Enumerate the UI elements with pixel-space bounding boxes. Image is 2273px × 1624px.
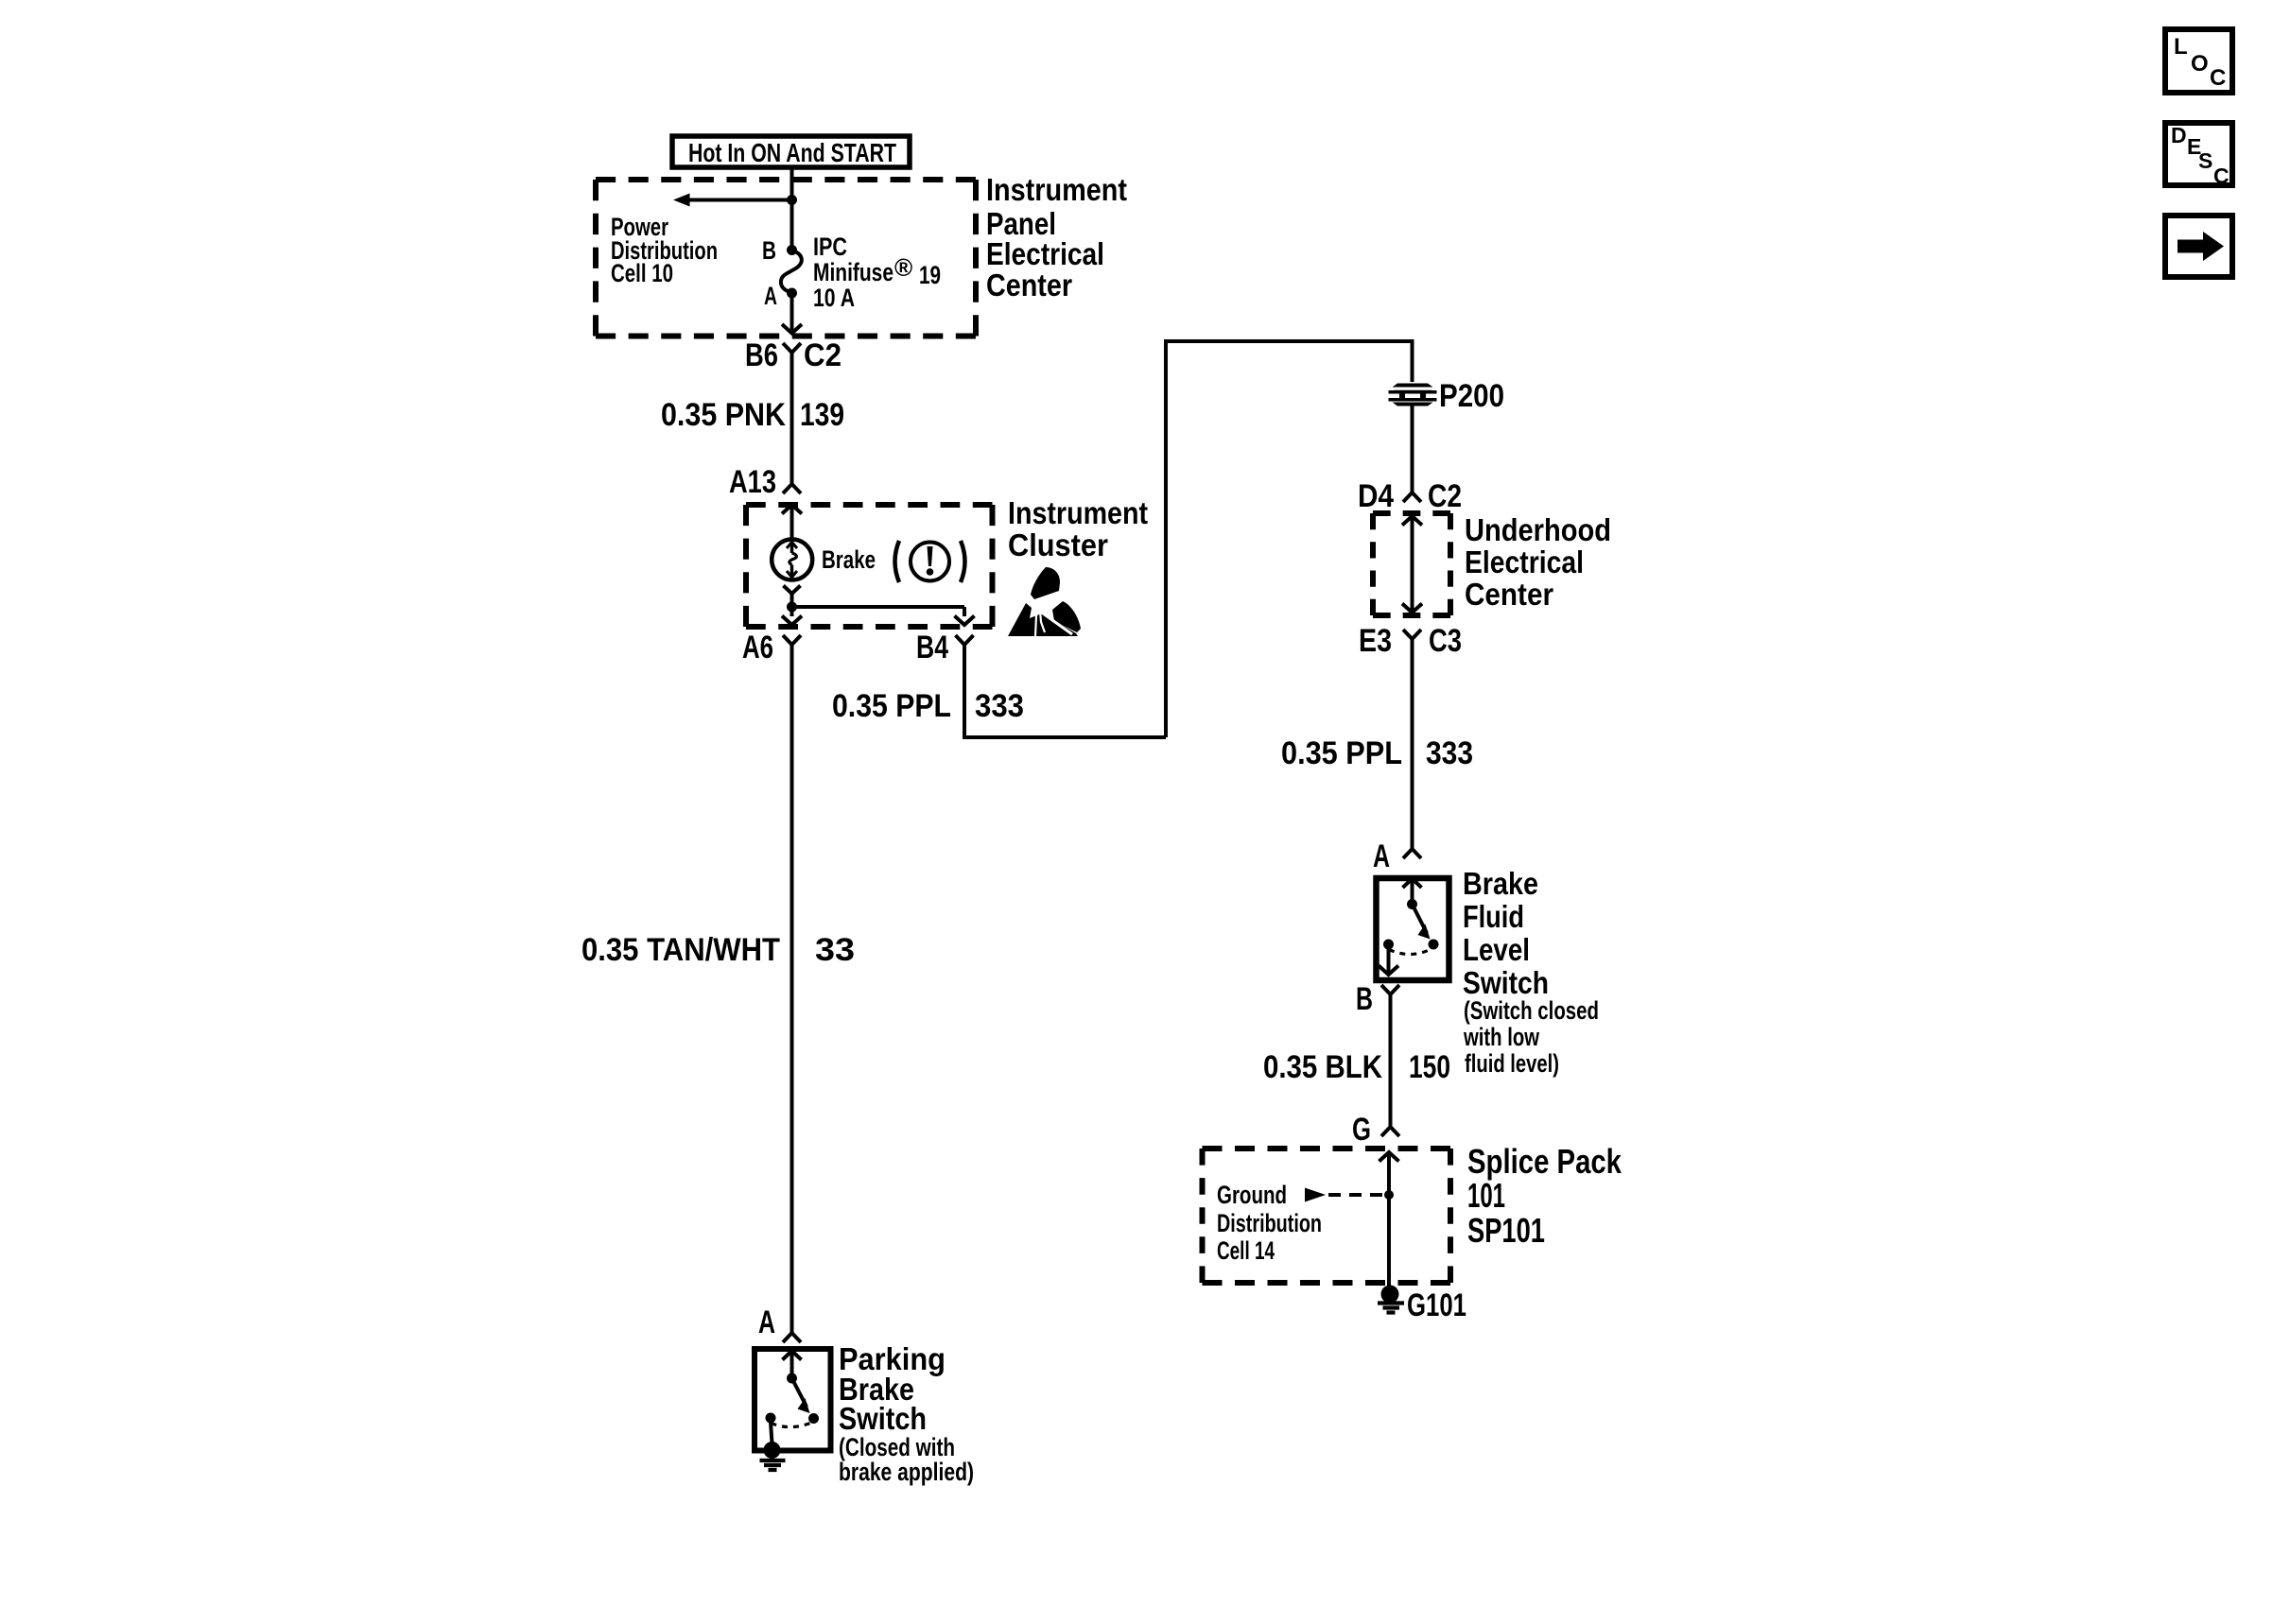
- svg-text:IPC: IPC: [813, 233, 847, 261]
- female connector B4: [956, 635, 974, 645]
- male terminal arrow at B6: [782, 324, 802, 334]
- svg-text:19: 19: [919, 261, 941, 289]
- svg-text:Brake: Brake: [822, 545, 876, 574]
- label Splice Pack 101 SP101: [1467, 1142, 1622, 1250]
- splice pack internal wire: [1387, 1152, 1391, 1292]
- female connector A (brake fluid level switch): [1403, 849, 1421, 858]
- Underhood Electrical Center box: [1373, 513, 1450, 615]
- fuse pin B dot: [787, 245, 797, 255]
- junction in IPEC: [787, 195, 797, 205]
- female connector A13: [783, 484, 801, 493]
- male terminal arrow at G: [1379, 1152, 1399, 1162]
- svg-text:L: L: [2174, 34, 2188, 60]
- svg-text:(Switch closed: (Switch closed: [1464, 996, 1599, 1025]
- svg-text:D4: D4: [1358, 478, 1394, 514]
- svg-text:Electrical: Electrical: [986, 236, 1104, 271]
- svg-text:P200: P200: [1439, 378, 1504, 414]
- svg-text:Cell 14: Cell 14: [1217, 1236, 1275, 1265]
- female connector E3/C3: [1403, 630, 1421, 639]
- label Instrument Cluster: [1008, 495, 1148, 562]
- svg-text:0.35 BLK: 0.35 BLK: [1263, 1049, 1382, 1085]
- wire A13 to brake gauge: [790, 505, 794, 540]
- female connector A6: [783, 635, 801, 645]
- svg-text:Center: Center: [986, 268, 1072, 302]
- svg-text:Cluster: Cluster: [1008, 527, 1108, 562]
- svg-text:33: 33: [815, 932, 855, 968]
- wire fuse A to connector B6: [790, 293, 794, 333]
- fluid switch pivot dot: [1407, 899, 1417, 909]
- svg-text:B: B: [762, 236, 776, 265]
- svg-text:Hot In ON And START: Hot In ON And START: [688, 138, 896, 167]
- fluid switch: terminal A arrow: [1403, 879, 1422, 905]
- svg-text:Splice Pack: Splice Pack: [1467, 1142, 1622, 1181]
- svg-text:S: S: [2198, 148, 2212, 173]
- label Parking Brake Switch: [839, 1341, 946, 1436]
- wire 0.35 PNK 139: [790, 353, 794, 484]
- wire gauge to junction: [790, 594, 794, 607]
- svg-text:C3: C3: [1429, 623, 1462, 659]
- wire through underhood center: [1411, 516, 1414, 613]
- svg-text:333: 333: [975, 688, 1024, 724]
- ESD static sensitive device symbol: [1008, 567, 1081, 636]
- parking brake contact dot (fixed): [766, 1413, 776, 1424]
- Instrument Panel Electrical Center box: [596, 180, 976, 337]
- svg-text:G101: G101: [1407, 1287, 1466, 1323]
- fluid switch terminal B arrow: [1379, 966, 1398, 976]
- svg-text:A: A: [758, 1304, 775, 1340]
- svg-text:with low: with low: [1463, 1023, 1540, 1051]
- LOC nav box: [2165, 29, 2232, 93]
- svg-text:A13: A13: [729, 464, 776, 500]
- svg-text:0.35 PPL: 0.35 PPL: [1281, 735, 1402, 771]
- DESC nav box: [2165, 123, 2232, 188]
- power feed box "Hot In ON And START": [672, 136, 910, 167]
- svg-text:Switch: Switch: [839, 1401, 927, 1436]
- ground distribution arrow: [1305, 1188, 1326, 1202]
- brake indicator gauge (instrument cluster): [772, 540, 812, 580]
- wire B4 branch down: [963, 607, 966, 616]
- svg-text:C: C: [2210, 65, 2226, 91]
- parking brake dashed closed-position arc: [772, 1423, 812, 1427]
- svg-text:brake applied): brake applied): [839, 1458, 974, 1486]
- label IPC Minifuse (R) 19 / 10 A: [813, 233, 941, 312]
- male terminal arrow at D4: [1402, 516, 1422, 526]
- svg-text:®: ®: [894, 253, 912, 282]
- svg-text:Minifuse: Minifuse: [813, 258, 894, 286]
- ground symbol (parking brake): [760, 1460, 786, 1470]
- fluid switch contact dot (moving): [1429, 940, 1439, 950]
- svg-text:101: 101: [1467, 1176, 1505, 1215]
- svg-text:SP101: SP101: [1467, 1211, 1545, 1250]
- wire 0.35 BLK 150: [1389, 994, 1393, 1127]
- female connector D4/C2: [1403, 492, 1421, 502]
- svg-text:Level: Level: [1463, 932, 1530, 967]
- svg-text:C2: C2: [804, 337, 842, 373]
- forward arrow nav box: [2165, 216, 2232, 277]
- fluid switch lead to terminal B: [1387, 948, 1391, 974]
- wire elbow to P200: [1166, 341, 1413, 737]
- svg-text:D: D: [2171, 123, 2187, 147]
- fluid switch dashed closed-position arc: [1389, 949, 1432, 955]
- ground terminal dot G101: [1381, 1286, 1399, 1304]
- svg-text:C: C: [2213, 164, 2230, 188]
- svg-text:G: G: [1352, 1112, 1371, 1148]
- Splice Pack SP101 box: [1203, 1149, 1451, 1283]
- svg-text:Ground: Ground: [1217, 1181, 1287, 1209]
- svg-text:C2: C2: [1428, 478, 1462, 514]
- parking brake ground dot: [764, 1442, 781, 1459]
- wire to power distribution (left): [687, 199, 792, 202]
- fuse IPC Minifuse 19 10A (element): [781, 251, 802, 293]
- female connector B6/C2: [783, 343, 801, 353]
- svg-text:B4: B4: [916, 630, 948, 665]
- brake warning indicator symbol ((!)): [895, 541, 965, 582]
- wire junction to fuse pin B: [790, 200, 794, 251]
- female connector B (fluid switch): [1381, 985, 1399, 994]
- parking brake switch box: [755, 1349, 831, 1451]
- ground symbol G101: [1378, 1304, 1404, 1313]
- fuse pin A dot: [787, 288, 797, 299]
- svg-text:Electrical: Electrical: [1465, 544, 1584, 579]
- label Brake Fluid Level Switch: [1463, 866, 1549, 1000]
- svg-text:10 A: 10 A: [813, 284, 855, 312]
- wire 0.35 TAN/WHT 33: [790, 645, 794, 1333]
- wire junction to B4 branch: [792, 605, 965, 609]
- label Power Distribution Cell 10: [611, 213, 718, 287]
- parking brake lead to ground: [771, 1422, 772, 1443]
- svg-text:139: 139: [800, 397, 844, 433]
- wire feed into IPEC: [790, 167, 794, 200]
- svg-text:O: O: [2191, 51, 2209, 77]
- svg-text:Distribution: Distribution: [1217, 1209, 1322, 1237]
- svg-text:0.35 TAN/WHT: 0.35 TAN/WHT: [581, 932, 780, 968]
- fluid switch blade (open position): [1413, 905, 1431, 940]
- female connector A (parking brake switch): [783, 1333, 801, 1342]
- svg-text:Center: Center: [1465, 577, 1553, 612]
- Instrument Cluster box: [746, 505, 993, 627]
- svg-text:E3: E3: [1359, 623, 1392, 659]
- arrowhead to Power Distribution: [673, 194, 690, 207]
- label (Closed with brake applied): [839, 1433, 974, 1486]
- svg-text:A: A: [1373, 838, 1390, 874]
- svg-text:0.35 PPL: 0.35 PPL: [832, 688, 951, 724]
- dashed wire to ground distribution: [1328, 1193, 1384, 1197]
- wire 0.35 PPL 333 (right): [1411, 639, 1414, 849]
- label Ground Distribution Cell 14: [1217, 1181, 1322, 1265]
- svg-text:Cell 10: Cell 10: [611, 259, 673, 287]
- svg-text:Underhood: Underhood: [1465, 512, 1611, 547]
- connector P200 (pass-through): [1387, 382, 1438, 407]
- svg-text:Instrument: Instrument: [1008, 495, 1148, 530]
- wire B4 to elbow: [964, 645, 1166, 737]
- junction in cluster: [787, 602, 797, 613]
- svg-text:Switch: Switch: [1463, 965, 1549, 1000]
- svg-text:B6: B6: [745, 337, 778, 373]
- parking brake pivot dot: [787, 1373, 797, 1384]
- svg-text:333: 333: [1426, 735, 1473, 771]
- label Instrument Panel Electrical Center: [986, 172, 1127, 302]
- label Underhood Electrical Center: [1465, 512, 1611, 612]
- wire junction down to A6: [790, 607, 794, 616]
- parking brake switch: terminal A arrow: [783, 1351, 802, 1378]
- svg-text:A6: A6: [742, 630, 773, 665]
- parking brake blade (open position): [792, 1378, 810, 1413]
- splice junction dot: [1384, 1190, 1394, 1200]
- svg-text:fluid level): fluid level): [1465, 1049, 1559, 1078]
- brake fluid level switch box: [1377, 878, 1449, 980]
- female connector G (splice pack): [1381, 1127, 1399, 1136]
- svg-text:B: B: [1356, 981, 1373, 1017]
- male terminal arrow at A6: [782, 616, 802, 626]
- label (Switch closed with low fluid level): [1463, 996, 1599, 1078]
- svg-text:Brake: Brake: [1463, 866, 1538, 901]
- parking brake contact dot (moving): [808, 1413, 819, 1424]
- male terminal arrow at E3: [1402, 604, 1422, 613]
- svg-text:Instrument: Instrument: [986, 172, 1127, 207]
- male terminal arrow at A13: [782, 505, 802, 514]
- gauge output fork: [784, 586, 801, 595]
- svg-text:Fluid: Fluid: [1463, 899, 1524, 934]
- wire P200 to D4: [1411, 406, 1414, 492]
- svg-text:A: A: [764, 282, 777, 310]
- fluid switch contact dot (fixed): [1383, 940, 1394, 950]
- svg-text:0.35 PNK: 0.35 PNK: [661, 397, 786, 433]
- svg-text:150: 150: [1409, 1049, 1450, 1085]
- male terminal arrow at B4: [955, 616, 975, 626]
